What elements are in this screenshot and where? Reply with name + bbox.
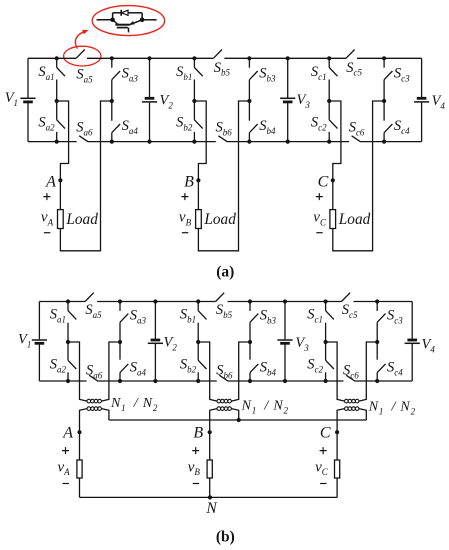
svg-text:Sa2: Sa2 [50, 357, 67, 375]
node: leg a1/a2 midpoint (b) [66, 340, 70, 344]
junction: leg a3 top rail [110, 56, 114, 60]
wire: transformer TB secondary left lead to node B [210, 409, 217, 460]
switch S_c4 (b) [376, 342, 378, 360]
wire: transformer TC primary right lead [359, 342, 377, 401]
load resistor phase A (a) [58, 210, 64, 229]
node: leg b3/b4 midpoint [247, 99, 251, 103]
switch S_a1 [56, 58, 58, 67]
svg-text:Sc6: Sc6 [343, 363, 359, 381]
wire: transformer TA primary left lead [68, 342, 87, 401]
svg-text:Sa6: Sa6 [86, 363, 103, 381]
switch S_c1 [328, 58, 330, 67]
svg-text:Sb4: Sb4 [259, 118, 276, 136]
svg-text:Sb3: Sb3 [259, 66, 276, 84]
wire: bottom rail (b) [39, 380, 412, 382]
junction: leg c3 top rail (b) [375, 299, 379, 303]
switch S_b1 [193, 58, 195, 67]
red callout ellipse (IGBT detail inset) [92, 6, 164, 36]
junction: inset left node [110, 18, 115, 23]
node: leg c3/c4 midpoint (b) [375, 340, 379, 344]
junction: leg c4 bottom rail (b) [375, 379, 379, 383]
wire: transformer TA secondary left lead to node A [80, 409, 88, 460]
junction: leg a2 bottom rail [55, 140, 59, 144]
wire: secondary common bus (b) [109, 419, 366, 421]
switch S_b2 [193, 101, 195, 120]
junction: leg c4 bottom rail [382, 140, 386, 144]
svg-text:Sa5: Sa5 [85, 302, 102, 320]
svg-text:Sb2: Sb2 [180, 357, 197, 375]
junction: V3 bottom rail (a) [286, 140, 290, 144]
svg-text:Sc4: Sc4 [387, 360, 403, 378]
diode D (anti-parallel, cathode left) [120, 10, 122, 16]
switch S_c2 [328, 101, 330, 120]
node: leg c1/c2 midpoint (b) [324, 340, 328, 344]
node: leg b1/b2 midpoint [192, 99, 196, 103]
svg-text:B: B [184, 173, 194, 190]
transformer TA primary winding N1 [87, 399, 91, 403]
switch S_a1 (b) [67, 302, 69, 311]
battery V2 (a) [149, 58, 151, 97]
switch S_a6 (b) [89, 375, 98, 381]
junction: leg a3 top rail (b) [118, 299, 122, 303]
junction: leg a1 top rail [55, 56, 59, 60]
svg-text:vC: vC [315, 459, 329, 477]
switch S_c3 (b) [376, 302, 378, 311]
battery V3 (b) [284, 302, 286, 340]
junction: leg c1 top rail [327, 56, 331, 60]
wire: transformer TA secondary right lead to common [101, 409, 109, 420]
svg-text:Load: Load [65, 211, 98, 228]
junction: leg c2 bottom rail (b) [324, 379, 328, 383]
switch S_a3 [111, 58, 113, 67]
wire: inset diode branch [112, 13, 114, 20]
wire: load A to neutral bus [79, 478, 81, 497]
svg-text:Sa1: Sa1 [50, 307, 66, 325]
svg-text:Sb3: Sb3 [260, 308, 277, 326]
transformer TB primary winding N1 [217, 399, 221, 403]
label v_B polarity (a) [181, 193, 188, 200]
junction: V2 top rail (a) [147, 56, 151, 60]
junction: TB secondary on common bus [237, 418, 241, 422]
junction: V3 top rail (b) [283, 299, 287, 303]
svg-text:Sb2: Sb2 [176, 115, 193, 133]
svg-text:Sb1: Sb1 [176, 64, 192, 82]
red arrow from S_a5 to inset [75, 31, 84, 48]
svg-text:V4: V4 [422, 337, 436, 355]
load resistor phase C (b) [335, 460, 340, 478]
node: leg a3/a4 midpoint (b) [118, 340, 122, 344]
junction: leg b3 top rail (b) [248, 299, 252, 303]
battery V1 (a) [27, 58, 29, 97]
svg-text:Sb1: Sb1 [180, 307, 196, 325]
switch S_c5 [346, 50, 355, 59]
svg-text:A: A [45, 173, 56, 190]
svg-text:Sb6: Sb6 [216, 120, 233, 138]
svg-text:B: B [193, 425, 203, 442]
svg-text:V3: V3 [297, 92, 311, 110]
transformer TA secondary winding N2 [87, 407, 91, 411]
switch S_b5 (b) [216, 293, 225, 302]
switch S_c1 (b) [325, 302, 327, 311]
svg-text:Sa2: Sa2 [38, 115, 55, 133]
battery V3 (a) [287, 58, 289, 97]
switch S_b6 (b) [219, 375, 228, 381]
transformer TB secondary winding N2 [217, 407, 221, 411]
wire: bottom rail (a) [28, 141, 422, 143]
wire: phase C output from leg midpoint [329, 101, 341, 210]
switch S_b5 [213, 50, 222, 59]
junction: V2 top rail (b) [153, 299, 157, 303]
switch S_b3 [248, 58, 250, 67]
switch S_a6 [79, 136, 88, 142]
junction: leg b1 top rail [192, 56, 196, 60]
load resistor phase C (a) [330, 210, 336, 229]
switch S_c2 (b) [325, 342, 327, 360]
wire: top rail (b) [39, 301, 412, 303]
svg-text:vB: vB [188, 459, 201, 477]
junction: leg a4 bottom rail [110, 140, 114, 144]
switch S_a4 (b) [119, 342, 121, 360]
switch S_c6 (b) [346, 375, 355, 381]
switch S_a3 (b) [119, 302, 121, 311]
wire: transformer TC secondary right lead to common [359, 409, 366, 420]
label v_A polarity (a) [43, 193, 50, 200]
svg-text:Sc3: Sc3 [394, 66, 410, 84]
battery V4 (b) [411, 302, 413, 340]
wire: phase B output from leg midpoint [194, 101, 206, 210]
svg-text:vC: vC [313, 210, 327, 228]
junction: leg a2 bottom rail (b) [66, 379, 70, 383]
battery V2 (b) [154, 302, 156, 340]
switch S_a5 [76, 50, 85, 59]
svg-text:V4: V4 [432, 93, 446, 111]
svg-text:vB: vB [179, 210, 192, 228]
svg-text:Sc2: Sc2 [307, 357, 323, 375]
svg-text:N1 / N2: N1 / N2 [110, 396, 158, 413]
node: leg c1/c2 midpoint [327, 99, 331, 103]
wire: neutral bus N [80, 496, 338, 498]
transformer TC primary winding N1 [345, 399, 349, 403]
node C (b) [335, 430, 339, 434]
load resistor phase A (b) [77, 460, 82, 478]
node B [196, 178, 200, 182]
load resistor phase B (b) [207, 460, 212, 478]
svg-text:Load: Load [203, 211, 236, 228]
label v_C polarity (b) [320, 447, 327, 454]
svg-text:C: C [320, 425, 331, 442]
wire: phase B load return [198, 101, 249, 251]
wire: transformer TA primary right lead [101, 342, 120, 401]
transformer TC secondary winding N2 [345, 407, 349, 411]
svg-text:V2: V2 [160, 93, 174, 111]
node A [58, 178, 62, 182]
svg-text:(b): (b) [216, 528, 235, 545]
svg-text:Sa1: Sa1 [38, 64, 54, 82]
wire: transformer TB primary right lead [231, 342, 250, 401]
switch S_a5 (b) [85, 293, 94, 302]
wire: top rail (a) [28, 57, 422, 59]
svg-text:V1: V1 [5, 90, 18, 108]
junction: leg a1 top rail (b) [66, 299, 70, 303]
battery V1 (b) [38, 302, 40, 340]
switch S_b4 [248, 101, 250, 121]
svg-text:Load: Load [338, 211, 371, 228]
junction: V2 bottom rail (a) [147, 140, 151, 144]
svg-text:Sa3: Sa3 [122, 66, 139, 84]
wire: transformer TB primary left lead [198, 342, 217, 401]
svg-text:vA: vA [41, 210, 54, 228]
switch S_a4 [111, 101, 113, 121]
junction: leg c2 bottom rail [327, 140, 331, 144]
switch S_c5 (b) [342, 293, 351, 302]
node: leg c3/c4 midpoint [382, 99, 386, 103]
junction: leg b4 bottom rail [247, 140, 251, 144]
node: leg b1/b2 midpoint (b) [196, 340, 200, 344]
svg-text:Sb5: Sb5 [216, 302, 233, 320]
node: leg b3/b4 midpoint (b) [248, 340, 252, 344]
svg-text:(a): (a) [216, 263, 234, 280]
junction: inset right node [140, 18, 145, 23]
svg-text:Sa5: Sa5 [76, 67, 93, 85]
svg-text:N1 / N2: N1 / N2 [368, 400, 416, 417]
node: leg a1/a2 midpoint [55, 99, 59, 103]
junction: leg b3 top rail [247, 56, 251, 60]
wire: transformer TC secondary left lead to node C [337, 409, 344, 460]
junction: V2 bottom rail (b) [153, 379, 157, 383]
node A (b) [77, 430, 81, 434]
wire: load B to neutral bus [209, 478, 211, 497]
label v_A polarity (b) [62, 447, 69, 454]
switch S_c4 [383, 101, 385, 121]
svg-text:vA: vA [58, 459, 71, 477]
red callout ellipse around switch S_a5 [64, 46, 101, 66]
svg-text:Sc1: Sc1 [307, 307, 323, 325]
node B (b) [208, 430, 212, 434]
svg-text:Sc3: Sc3 [387, 308, 403, 326]
battery V4 (a) [421, 58, 423, 97]
svg-text:C: C [318, 173, 329, 190]
node: leg a3/a4 midpoint [110, 99, 114, 103]
wire: transformer TC primary left lead [326, 342, 345, 401]
svg-text:Sb6: Sb6 [216, 363, 233, 381]
wire: inset horizontal leads [97, 19, 113, 21]
svg-text:N: N [205, 500, 218, 517]
svg-text:Sc1: Sc1 [311, 64, 327, 82]
svg-text:Sa4: Sa4 [130, 360, 147, 378]
junction: V3 top rail (a) [286, 56, 290, 60]
svg-text:Sc6: Sc6 [349, 120, 365, 138]
node N [208, 495, 212, 499]
svg-text:Sc4: Sc4 [394, 118, 410, 136]
svg-text:Sa6: Sa6 [76, 120, 93, 138]
junction: leg b4 bottom rail (b) [248, 379, 252, 383]
switch S_b2 (b) [197, 342, 199, 360]
svg-text:V2: V2 [164, 335, 178, 353]
node C [331, 178, 335, 182]
junction: leg a4 bottom rail (b) [118, 379, 122, 383]
wire: load C to neutral bus [336, 478, 338, 497]
switch S_b6 [218, 136, 227, 142]
switch S_c6 [352, 136, 361, 142]
junction: leg c3 top rail [382, 56, 386, 60]
transistor: IGBT symbol [115, 24, 129, 26]
label v_B polarity (b) [192, 447, 199, 454]
wire: phase C load return [333, 101, 384, 251]
label v_C polarity (a) [316, 193, 323, 200]
switch S_b3 (b) [249, 302, 251, 311]
svg-text:Sc2: Sc2 [311, 115, 327, 133]
junction: V3 bottom rail (b) [283, 379, 287, 383]
junction: leg b2 bottom rail (b) [196, 379, 200, 383]
junction: leg b1 top rail (b) [196, 299, 200, 303]
switch S_a2 [56, 101, 58, 120]
svg-text:V1: V1 [18, 332, 31, 350]
junction: leg b2 bottom rail [192, 140, 196, 144]
svg-text:Sa3: Sa3 [130, 308, 147, 326]
switch S_a2 (b) [67, 342, 69, 360]
svg-text:V3: V3 [295, 335, 309, 353]
switch S_b1 (b) [197, 302, 199, 311]
svg-text:Sb5: Sb5 [214, 60, 231, 78]
wire: transformer TB secondary right lead to common [231, 409, 238, 420]
svg-text:Sc5: Sc5 [346, 60, 362, 78]
svg-text:A: A [62, 425, 73, 442]
junction: leg c1 top rail (b) [324, 299, 328, 303]
wire: phase A load return [60, 101, 111, 251]
switch S_c3 [383, 58, 385, 67]
wire: phase A output from leg midpoint [57, 101, 69, 210]
load resistor phase B (a) [196, 210, 202, 229]
switch S_b4 (b) [249, 342, 251, 360]
svg-text:Sa4: Sa4 [122, 118, 139, 136]
svg-text:Sb4: Sb4 [260, 360, 277, 378]
svg-text:N1 / N2: N1 / N2 [241, 399, 289, 416]
svg-text:Sc5: Sc5 [342, 302, 358, 320]
